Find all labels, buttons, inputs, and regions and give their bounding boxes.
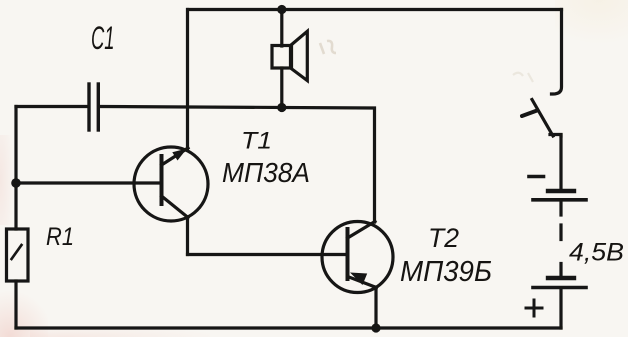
wire switch to battery bbox=[559, 135, 562, 189]
junction dot T1 base node A bbox=[11, 178, 21, 188]
svg-text:Т2: Т2 bbox=[428, 223, 459, 253]
junction dot T2 emitter node bbox=[371, 323, 380, 332]
capacitor C1 bbox=[89, 84, 98, 130]
junction dot speaker bottom node bbox=[277, 103, 286, 112]
svg-text:4,5В: 4,5В bbox=[569, 239, 624, 267]
battery GB1 cell 2 short plate bbox=[548, 276, 574, 280]
wire middle rail left (C1 left lead) bbox=[16, 105, 88, 108]
switch S1 bbox=[522, 100, 561, 137]
junction dot speaker top node bbox=[277, 5, 286, 14]
transistor T2 bbox=[322, 222, 393, 293]
wire top rail bbox=[188, 8, 562, 11]
svg-text:МП38А: МП38А bbox=[222, 157, 310, 188]
battery GB1 minus sign bbox=[529, 175, 544, 179]
svg-text:C1: C1 bbox=[91, 20, 115, 56]
wire battery to bottom rail bbox=[559, 289, 562, 328]
wire bottom rail bbox=[16, 326, 561, 329]
transistor T1 bbox=[134, 147, 208, 221]
wire T2 emitter to bottom rail bbox=[374, 287, 377, 328]
wire speaker bottom lead bbox=[280, 68, 283, 108]
wire T1 base lead bbox=[16, 181, 162, 184]
wire speaker top lead bbox=[280, 10, 283, 47]
svg-text:МП39Б: МП39Б bbox=[400, 256, 492, 288]
speaker B1 bbox=[272, 31, 307, 80]
wire T1 emitter riser (top rail down to T1) bbox=[186, 10, 189, 150]
resistor R1 bbox=[7, 229, 29, 281]
wire left branch vertical upper bbox=[14, 107, 17, 230]
wire T1 collector vertical bbox=[186, 217, 189, 255]
wire right drop to switch bbox=[552, 10, 562, 95]
svg-text:Т1: Т1 bbox=[241, 128, 272, 155]
faint bleed-through mark near speaker bbox=[320, 41, 336, 54]
svg-text:R1: R1 bbox=[46, 223, 74, 251]
wire dashed battery link bbox=[559, 201, 562, 276]
wire left branch vertical lower bbox=[14, 281, 17, 328]
battery GB1 plus sign bbox=[526, 300, 542, 316]
wire T1 collector to T2 base bbox=[188, 253, 348, 256]
faint bleed-through mark near switch bbox=[513, 73, 533, 82]
wire middle rail right (C1 to T2 collector corner) bbox=[100, 107, 375, 223]
battery GB1 cell 1 long plate bbox=[533, 198, 586, 202]
battery GB1 cell 1 short plate bbox=[548, 189, 574, 193]
battery GB1 cell 2 long plate bbox=[533, 286, 586, 290]
